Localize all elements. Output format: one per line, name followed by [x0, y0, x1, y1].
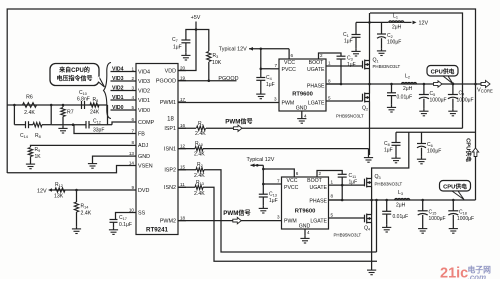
svg-text:PVCC: PVCC	[282, 67, 297, 73]
callout bubble: CPU power ch1	[427, 66, 458, 77]
wire / inner top rail joining drain column to ISP1 return	[370, 13, 463, 128]
svg-text:CPU供电: CPU供电	[431, 68, 455, 76]
junction	[208, 79, 211, 82]
svg-text:8: 8	[131, 140, 134, 145]
pin 8 PHASE of U2	[329, 199, 343, 201]
svg-text:LGATE: LGATE	[308, 101, 325, 107]
wire / VID line VID3	[111, 80, 129, 82]
capacitor C18 1000uF	[452, 200, 454, 211]
svg-text:12: 12	[180, 143, 186, 148]
wire / FB tap	[74, 125, 128, 134]
svg-text:1μF: 1μF	[269, 198, 278, 204]
svg-text:VID0: VID0	[112, 105, 124, 111]
pin 2 BOOT of U2	[317, 171, 342, 178]
svg-text:1000μF: 1000μF	[429, 216, 446, 222]
controller U3 RT9241 body	[136, 64, 178, 235]
svg-text:14: 14	[129, 160, 135, 165]
pin 1 VID4 of U3	[128, 71, 136, 73]
junction	[62, 104, 65, 107]
svg-text:6: 6	[131, 117, 134, 122]
wire / parallel branch left leg	[13, 105, 15, 125]
capacitor C8 1uF	[395, 132, 397, 142]
svg-text:4: 4	[304, 114, 307, 119]
ground for snubber ch2	[386, 225, 388, 228]
resistor R3 10K	[207, 52, 211, 62]
wire / comp net to COMP pin	[107, 105, 109, 125]
wire / R6 row	[7, 104, 107, 106]
pin 2 BOOT of U1	[319, 53, 342, 59]
svg-text:FB: FB	[138, 131, 145, 137]
svg-text:VID0: VID0	[138, 108, 150, 114]
wire / PGOOD line	[178, 80, 237, 82]
pin 7 PVCC of U1	[271, 68, 280, 70]
svg-text:PGOOD: PGOOD	[156, 78, 176, 84]
svg-text:ISN1: ISN1	[164, 146, 176, 152]
wire / 12V mid rail	[396, 131, 476, 133]
ground for C15	[422, 226, 424, 229]
svg-text:33pF: 33pF	[93, 128, 104, 134]
wire / ISP1 sense line	[178, 127, 196, 129]
svg-text:VID4: VID4	[112, 67, 124, 73]
junction	[340, 83, 343, 86]
junction	[75, 189, 78, 192]
ground for R7	[62, 126, 64, 129]
svg-text:VID2: VID2	[138, 88, 150, 94]
junction	[452, 199, 455, 202]
svg-text:15: 15	[180, 165, 186, 170]
capacitor C11 1uF (boot ch2)	[338, 173, 347, 175]
svg-text:VID1: VID1	[138, 98, 150, 104]
svg-text:1μF: 1μF	[347, 62, 356, 68]
ground for U2	[304, 236, 306, 239]
transistor Q2 PHB95N03LT	[362, 94, 364, 102]
pin 14 VSEN of U3	[128, 165, 136, 167]
svg-text:RT9600: RT9600	[295, 209, 316, 215]
capacitor C14	[25, 121, 27, 128]
svg-text:RT9241: RT9241	[146, 227, 169, 234]
svg-text:5: 5	[328, 96, 331, 101]
svg-text:+5V: +5V	[191, 15, 201, 21]
resistor R9 1K	[31, 145, 129, 147]
svg-text:21ic: 21ic	[440, 266, 468, 280]
capacitor C2 100uF	[381, 22, 383, 34]
svg-text:PHB95NO3LT: PHB95NO3LT	[336, 114, 364, 119]
junction	[452, 82, 455, 85]
svg-text:1μF: 1μF	[344, 39, 353, 45]
svg-text:BOOT: BOOT	[309, 60, 325, 66]
wire / ISN1 sense line	[178, 148, 195, 150]
wire / Q1 source to phase	[369, 69, 371, 85]
svg-text:2: 2	[320, 53, 323, 58]
svg-text:ADJ: ADJ	[138, 143, 148, 149]
ground for C5	[423, 109, 425, 112]
capacitor C4 1uF (PVCC)	[256, 77, 265, 79]
svg-text:VID3: VID3	[112, 76, 124, 82]
svg-text:VID4: VID4	[138, 69, 150, 75]
wire / GND pin to ground	[93, 156, 129, 161]
resistor R8a	[33, 123, 42, 127]
pin 7 FB of U3	[128, 133, 136, 135]
svg-text:1μF: 1μF	[173, 45, 182, 51]
svg-text:ISP1: ISP1	[164, 126, 176, 132]
wire / VDD to +5V rail	[178, 22, 196, 71]
ground for C2	[381, 48, 383, 51]
pin 18 PWM2 of U3	[178, 220, 186, 222]
svg-text:VCC: VCC	[284, 60, 295, 66]
capacitor C4b 1000uF	[452, 84, 454, 95]
svg-text:3: 3	[131, 85, 134, 90]
wire / +5V branch to R3	[196, 30, 209, 52]
svg-text:13K: 13K	[54, 194, 64, 200]
svg-text:7: 7	[131, 128, 134, 133]
transistor Q4 PHB95N03LT	[364, 215, 366, 223]
resistor R13 2.4K	[195, 185, 203, 189]
svg-text:Typical 12V: Typical 12V	[219, 46, 247, 52]
svg-text:8: 8	[328, 79, 331, 84]
signal arrow on ISP1 line	[234, 125, 243, 131]
svg-text:2.4K: 2.4K	[24, 110, 35, 116]
svg-text:6: 6	[296, 171, 299, 176]
wire / ISN2 sense line	[178, 186, 195, 188]
svg-text:6: 6	[291, 53, 294, 58]
svg-text:1μF: 1μF	[349, 180, 358, 186]
inductor L3 2uH	[395, 199, 410, 200]
svg-text:PWM信号: PWM信号	[223, 209, 251, 217]
svg-text:ISN2: ISN2	[164, 185, 176, 191]
capacitor C3 1uF (boot)	[337, 55, 346, 57]
pin 9 DVD of U3	[128, 189, 136, 191]
svg-text:3: 3	[277, 215, 280, 220]
pin 16 ISP1 of U3	[178, 127, 186, 129]
svg-text:电压指令信号: 电压指令信号	[56, 74, 92, 82]
svg-text:PHB83NO3LT: PHB83NO3LT	[375, 182, 403, 187]
svg-text:PWM信号: PWM信号	[225, 117, 253, 125]
capacitor C13 1uF	[259, 193, 268, 195]
svg-text:0.01μF: 0.01μF	[393, 214, 409, 220]
svg-text:7: 7	[274, 63, 277, 68]
svg-text:VID1: VID1	[112, 95, 124, 101]
ground for C13	[262, 206, 264, 209]
capacitor C7 1uF	[181, 39, 190, 41]
svg-text:VID2: VID2	[112, 86, 124, 92]
pin 6 COMP of U3	[128, 121, 136, 123]
wire / VID line VID1	[111, 99, 129, 101]
svg-text:1K: 1K	[35, 154, 42, 160]
pin 19 PGOOD of U3	[178, 80, 186, 82]
junction	[195, 28, 198, 31]
wire / typical 12V to U1 VCC	[249, 48, 289, 50]
svg-text:19: 19	[180, 75, 186, 80]
svg-text:2μH: 2μH	[403, 86, 413, 92]
wire / Q3 source to phase	[371, 187, 373, 201]
svg-text:ISP2: ISP2	[164, 168, 176, 174]
pin 5 LGATE of U2	[329, 217, 365, 219]
pin 2 VID3 of U3	[128, 80, 136, 82]
svg-text:DVD: DVD	[138, 188, 149, 194]
svg-text:.com: .com	[468, 273, 487, 279]
wire / Q2 source down to ground	[369, 102, 371, 156]
junction	[368, 83, 371, 86]
svg-text:6.8nF: 6.8nF	[77, 97, 90, 103]
pin 6 VCC of U1	[288, 49, 290, 59]
pin 17 PWM1 of U3	[178, 101, 186, 103]
wire / parallel branch bottom	[14, 124, 25, 126]
svg-text:GND: GND	[296, 106, 308, 112]
svg-text:R6: R6	[26, 95, 33, 101]
svg-text:3: 3	[274, 97, 277, 102]
svg-text:2.4K: 2.4K	[194, 173, 205, 179]
pin 1 UGATE of U1	[326, 65, 363, 67]
wire / +5V branch to C7	[186, 30, 196, 41]
svg-text:Typical 12V: Typical 12V	[247, 157, 275, 163]
wire / parallel branch right leg	[50, 105, 52, 125]
resistor R6	[23, 103, 37, 108]
pin 1 UGATE of U2	[329, 184, 365, 186]
capacitor C17 0.1uF	[110, 219, 118, 221]
svg-text:PWM: PWM	[282, 101, 295, 107]
svg-text:0.01μF: 0.01μF	[397, 95, 413, 101]
resistor R7	[62, 105, 64, 107]
svg-text:1: 1	[331, 180, 334, 185]
svg-text:1: 1	[328, 61, 331, 66]
wire / Q2 drain from phase	[369, 84, 371, 94]
svg-text:24K: 24K	[90, 110, 100, 116]
svg-text:17: 17	[180, 97, 186, 102]
pin 12 ISN1 of U3	[178, 148, 186, 150]
junction	[262, 168, 265, 171]
ground for C4	[260, 92, 262, 95]
svg-text:PHASE: PHASE	[309, 199, 327, 205]
junction	[368, 21, 371, 24]
pin 11 ISN2 of U3	[178, 186, 186, 188]
junction	[341, 184, 344, 187]
signal arrow on VCORE rail	[434, 81, 443, 87]
svg-text:CPU供电: CPU供电	[465, 138, 473, 162]
svg-text:5: 5	[331, 213, 334, 218]
resistor R9b 24K	[90, 103, 99, 107]
svg-text:VCC: VCC	[287, 178, 298, 184]
svg-text:0.1μF: 0.1μF	[119, 222, 132, 228]
ground for C8	[395, 156, 397, 159]
pin 6 VCC of U2	[263, 169, 294, 177]
wire / Q4 source down	[371, 223, 373, 268]
pin 5 VID0 of U3	[128, 109, 136, 111]
svg-text:SS: SS	[138, 210, 146, 216]
pin 3 VID2 of U3	[128, 90, 136, 92]
wire / 12V to PVCC ch2	[263, 183, 273, 185]
svg-text:BOOT: BOOT	[307, 178, 323, 184]
pin 7 PVCC of U2	[273, 183, 282, 185]
resistor R14 2.4K	[76, 190, 78, 202]
capacitor C15 1000uF	[422, 200, 424, 211]
resistor R12 13K	[55, 188, 65, 192]
VID bus bracket	[104, 63, 112, 119]
wire / mid rail down to Q3 drain	[372, 132, 409, 178]
ground for C4b	[452, 109, 454, 112]
wire / DVD row	[50, 189, 128, 191]
ground for ISN1 / Q2 source	[368, 155, 370, 158]
svg-text:PHASE: PHASE	[307, 84, 325, 90]
signal arrow on PWM2 line	[233, 217, 242, 223]
wire / ISP2 sense line	[178, 169, 196, 171]
svg-text:GND: GND	[299, 224, 311, 230]
svg-text:2: 2	[319, 171, 322, 176]
ground for R14	[76, 226, 78, 229]
current arrow up	[472, 148, 478, 157]
svg-text:5: 5	[131, 105, 134, 110]
wire / 12V branch to PVCC and C4	[261, 49, 271, 69]
svg-text:10: 10	[129, 207, 135, 212]
output arrow VCORE	[481, 80, 490, 87]
svg-text:2: 2	[131, 76, 134, 81]
callout bubble: CPU power ch2	[440, 181, 471, 192]
svg-text:1μF: 1μF	[384, 148, 393, 154]
resistor R2 2.4K	[196, 168, 204, 172]
junction	[390, 83, 393, 86]
svg-text:2.4K: 2.4K	[81, 211, 92, 217]
inductor L1 2uH	[389, 21, 404, 23]
wire / PWM1 to driver 1	[178, 102, 279, 104]
junction	[370, 199, 373, 202]
wire / phase node channel 1	[326, 83, 482, 85]
ground for C6	[421, 157, 423, 160]
driver U2 RT9600 body	[282, 177, 329, 229]
junction	[13, 104, 16, 107]
svg-text:7: 7	[277, 178, 280, 183]
svg-text:2.4K: 2.4K	[195, 131, 206, 137]
svg-text:COMP: COMP	[138, 120, 155, 126]
svg-text:1000μF: 1000μF	[457, 98, 474, 104]
junction at VCORE column	[474, 83, 477, 86]
svg-text:UGATE: UGATE	[310, 185, 328, 191]
svg-text:1000μF: 1000μF	[457, 216, 474, 222]
svg-text:R7: R7	[67, 110, 74, 116]
capacitor C5 1000uF	[423, 84, 425, 95]
wire / VID line VID4	[111, 71, 129, 73]
pin 20 VDD of U3	[178, 70, 186, 72]
wire / C12 FB row	[51, 124, 86, 126]
resistor R1 2.4K	[197, 126, 206, 130]
junction	[50, 104, 53, 107]
svg-text:12V: 12V	[419, 21, 429, 27]
svg-text:VDD: VDD	[165, 68, 176, 74]
pin 4 GND of U1	[301, 111, 303, 116]
svg-text:2.4K: 2.4K	[194, 191, 205, 197]
pin 8 ADJ of U3	[128, 144, 136, 146]
svg-text:10K: 10K	[212, 60, 222, 66]
svg-text:来自CPU的: 来自CPU的	[59, 66, 90, 74]
capacitor C6 100uF	[421, 132, 423, 143]
svg-text:4: 4	[131, 95, 134, 100]
svg-text:PWM: PWM	[284, 219, 297, 225]
junction	[260, 68, 263, 71]
svg-text:100μF: 100μF	[427, 149, 441, 155]
svg-text:PWM1: PWM1	[160, 100, 176, 106]
svg-text:18: 18	[180, 215, 186, 220]
svg-text:1μF: 1μF	[266, 82, 275, 88]
transistor Q1 PHB83N03LT	[362, 61, 364, 69]
wire / top feedback rail from VCORE to left network	[7, 9, 475, 173]
svg-text:UGATE: UGATE	[307, 67, 325, 73]
svg-text:VCORE: VCORE	[477, 88, 493, 94]
ground for C17	[113, 227, 115, 230]
junction	[423, 83, 426, 86]
pin 15 ISP2 of U3	[178, 169, 186, 171]
wire / SS to C17	[116, 213, 129, 220]
pin 4 GND of U2	[304, 229, 306, 236]
svg-text:RT9600: RT9600	[292, 92, 313, 98]
junction	[385, 199, 388, 202]
resistor R10 2.4K	[195, 146, 203, 150]
svg-text:20: 20	[180, 65, 186, 70]
pin 4 VID1 of U3	[128, 99, 136, 101]
capacitor C1 1uF	[355, 22, 357, 34]
wire / 12V rail ch2	[251, 164, 264, 166]
svg-text:2.4K: 2.4K	[194, 152, 205, 158]
supply label 12V ch1 input	[413, 21, 417, 25]
svg-text:12V: 12V	[37, 188, 47, 194]
wire / VSEN sense line	[7, 166, 128, 173]
wire / output join column	[475, 84, 477, 200]
junction	[256, 164, 259, 167]
svg-text:2μH: 2μH	[396, 203, 406, 209]
capacitor C10 6.8nF	[81, 101, 83, 109]
ground for Q4 source	[371, 268, 373, 271]
svg-text:PWM2: PWM2	[160, 218, 176, 224]
inductor L2 2uH	[402, 83, 417, 85]
svg-text:PHB95NO3LT: PHB95NO3LT	[334, 233, 362, 238]
junction	[72, 123, 75, 126]
junction	[262, 183, 265, 186]
svg-text:VSEN: VSEN	[138, 163, 153, 169]
junction	[260, 48, 263, 51]
wire / 12V input to L1	[356, 21, 389, 23]
capacitor C12 33pF	[85, 121, 87, 129]
svg-text:2μH: 2μH	[392, 25, 402, 31]
svg-text:PVCC: PVCC	[284, 185, 299, 191]
ground for U1	[301, 116, 303, 119]
junction	[421, 199, 424, 202]
ground for C18	[452, 226, 454, 229]
svg-text:100μF: 100μF	[387, 40, 401, 46]
wire / Q1 drain column	[369, 13, 371, 61]
svg-text:18: 18	[167, 117, 174, 123]
svg-text:PHB83NO3LT: PHB83NO3LT	[373, 64, 401, 69]
svg-text:VID3: VID3	[138, 79, 150, 85]
capacitor C1b 0.01uF snubber ch1	[391, 84, 393, 93]
wire / PWM2 to driver 2	[178, 220, 282, 222]
ground for R9	[30, 162, 32, 165]
svg-text:1000μF: 1000μF	[430, 98, 447, 104]
junction	[341, 199, 344, 202]
driver U1 RT9600 body	[279, 59, 326, 111]
pin 13 GND of U3	[128, 155, 136, 157]
pin 10 SS of U3	[128, 212, 136, 214]
junction	[452, 83, 455, 86]
callout bubble: VID command from CPU	[50, 64, 99, 86]
svg-text:1: 1	[131, 66, 134, 71]
capacitor 0.01uF snubber ch2	[386, 200, 388, 211]
svg-text:GND: GND	[138, 154, 150, 160]
svg-text:4: 4	[307, 230, 310, 235]
pin 8 PHASE of U1	[326, 83, 341, 85]
ground for snubber ch1	[391, 105, 393, 108]
wire / phase node channel 2	[329, 199, 476, 201]
wire / VID line VID2	[111, 90, 129, 92]
wire / VID line VID0	[111, 109, 129, 111]
svg-text:CPU供电: CPU供电	[443, 183, 467, 191]
svg-text:13: 13	[129, 151, 135, 156]
